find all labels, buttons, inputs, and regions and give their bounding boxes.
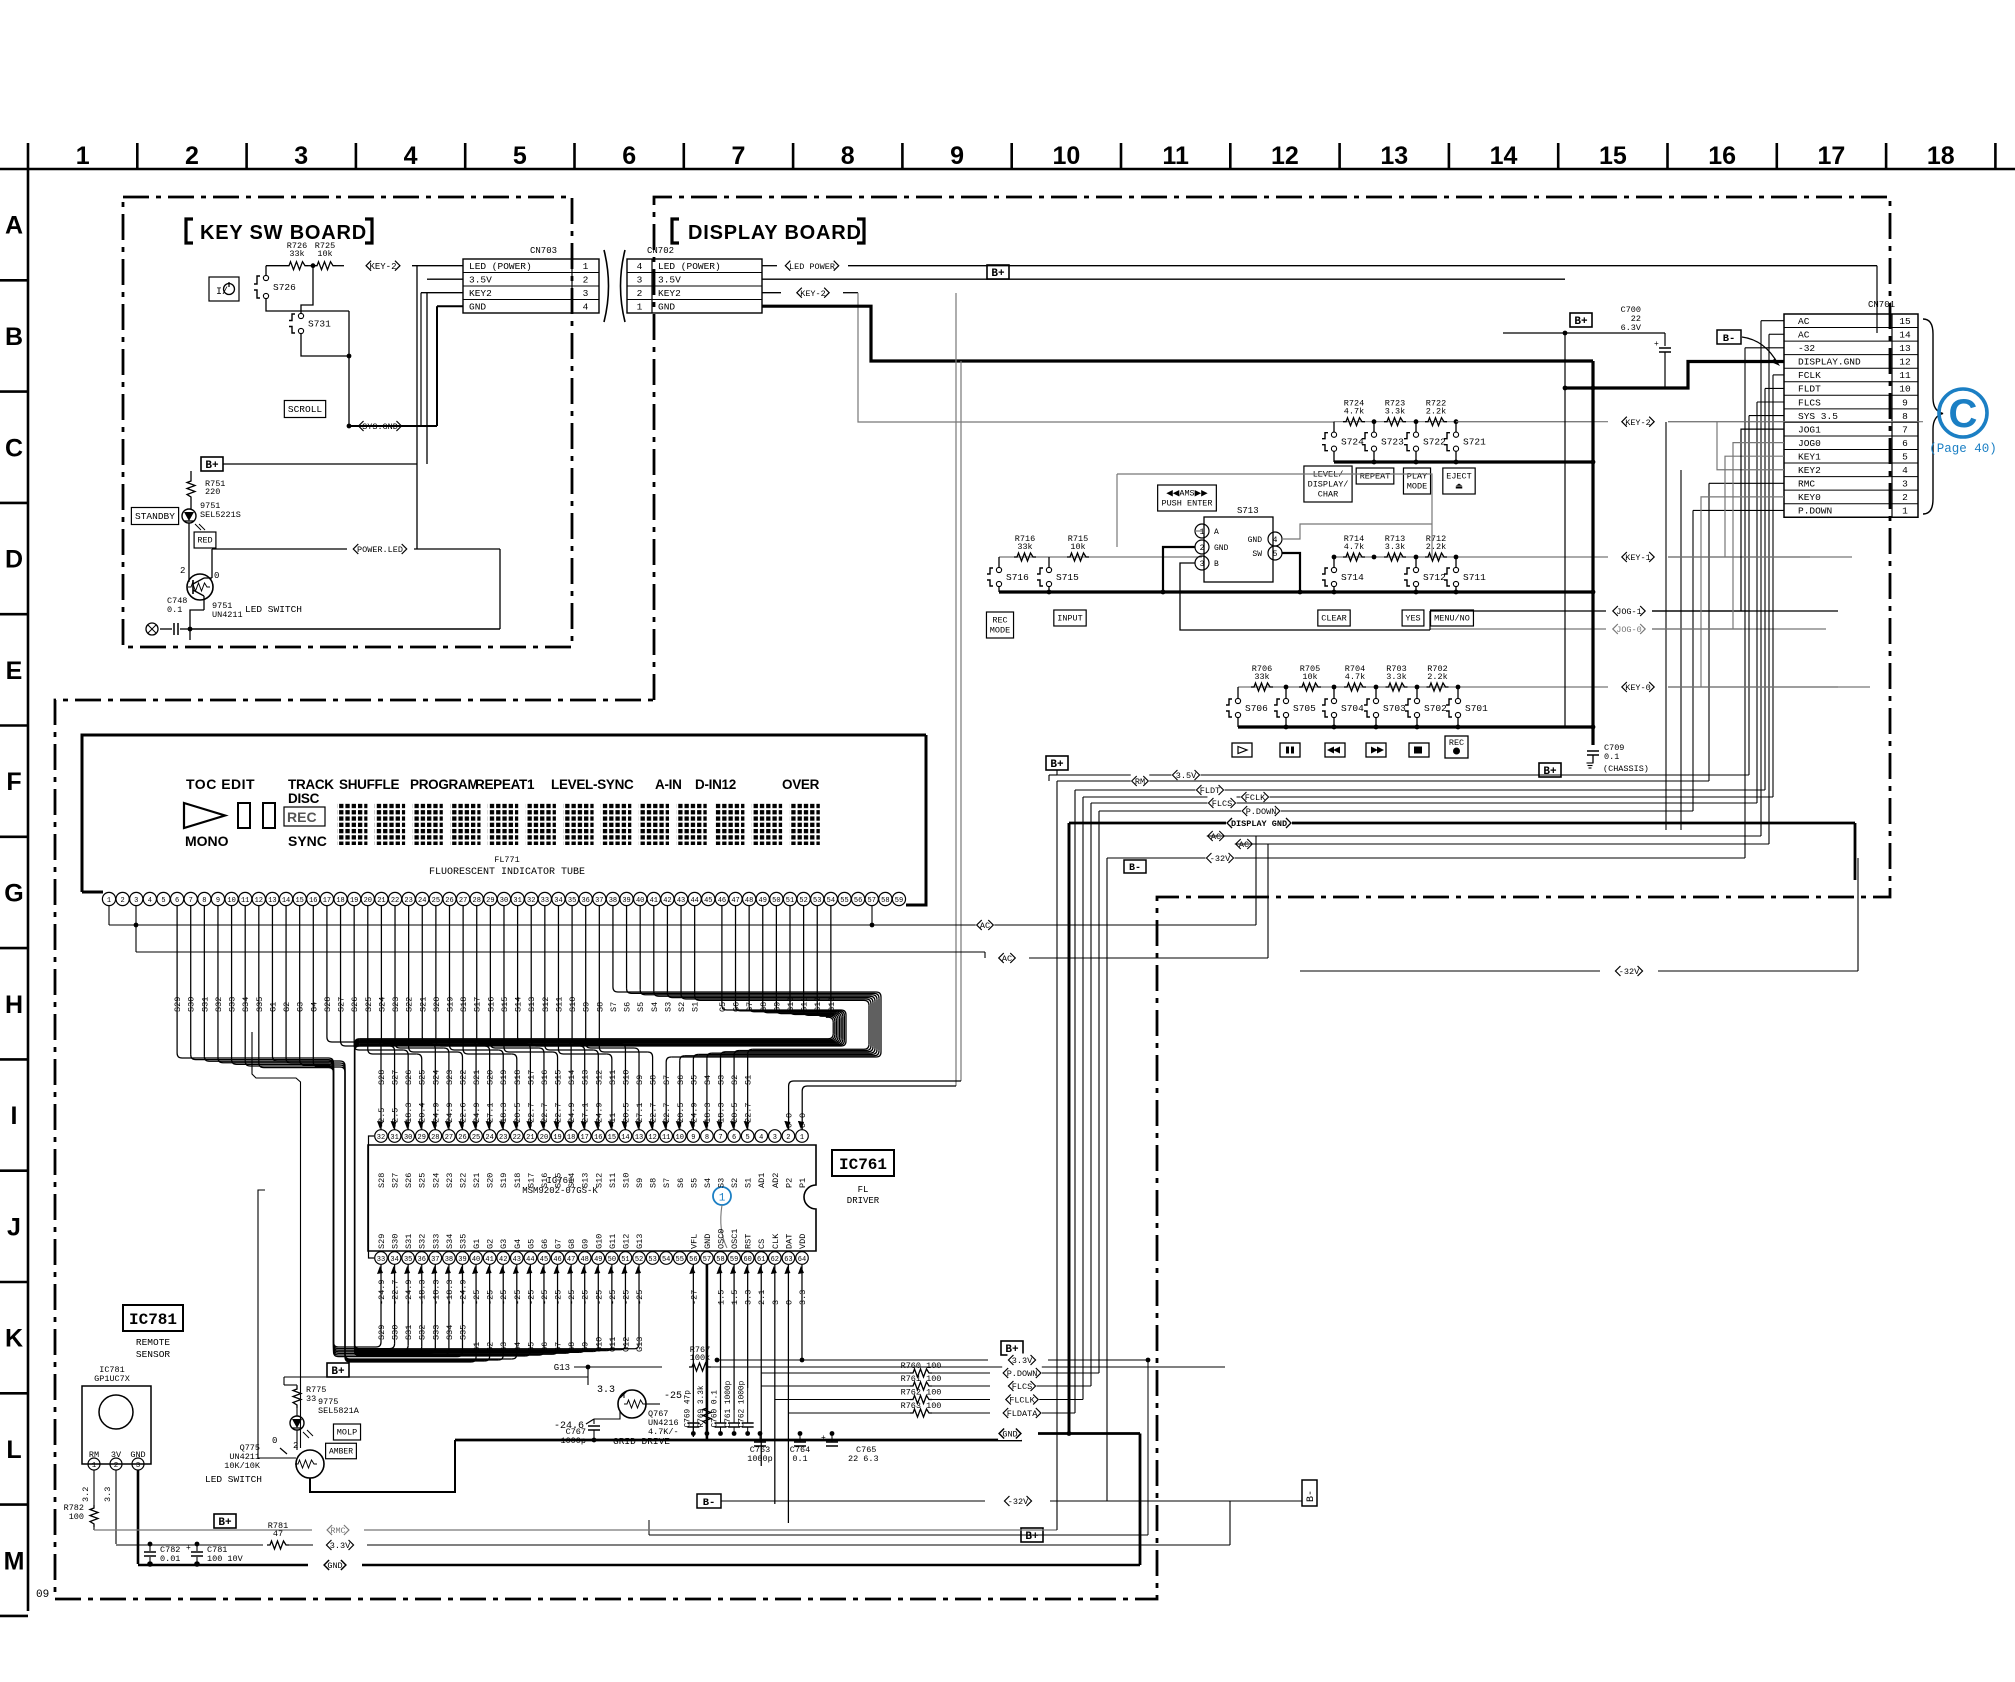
svg-text:EJECT: EJECT	[1446, 472, 1472, 482]
svg-text:-32V: -32V	[1619, 967, 1640, 977]
svg-text:S34: S34	[241, 997, 251, 1012]
svg-text:S23: S23	[445, 1070, 455, 1085]
svg-text:B+: B+	[1574, 316, 1588, 328]
svg-text:G13: G13	[635, 1337, 645, 1352]
svg-text:G13: G13	[554, 1363, 570, 1373]
svg-text:0: 0	[784, 1113, 794, 1118]
svg-text:-25: -25	[499, 1290, 509, 1305]
svg-text:MODE: MODE	[1407, 482, 1427, 492]
svg-text:S24: S24	[377, 997, 387, 1012]
svg-text:B-: B-	[1129, 863, 1141, 874]
svg-text:JOG-0: JOG-0	[1616, 625, 1642, 635]
svg-text:KEY0: KEY0	[1798, 492, 1821, 503]
svg-text:0.1: 0.1	[1604, 752, 1619, 762]
svg-text:38: 38	[445, 1256, 453, 1264]
svg-text:JOG1: JOG1	[1798, 424, 1821, 435]
svg-text:RST: RST	[744, 1234, 754, 1249]
svg-text:-25: -25	[594, 1290, 604, 1305]
svg-text:17: 17	[323, 897, 331, 905]
svg-text:B+: B+	[331, 1366, 345, 1378]
svg-text:G9: G9	[581, 1239, 591, 1249]
svg-text:IC761: IC761	[839, 1156, 887, 1174]
svg-text:50: 50	[608, 1256, 616, 1264]
svg-text:DISPLAY.GND: DISPLAY.GND	[1798, 357, 1861, 368]
svg-text:220: 220	[205, 487, 220, 497]
svg-text:23: 23	[404, 897, 412, 905]
svg-text:3: 3	[637, 274, 643, 285]
svg-text:-27: -27	[689, 1290, 699, 1305]
svg-text:9: 9	[1902, 397, 1908, 408]
svg-text:AMBER: AMBER	[329, 1447, 353, 1456]
svg-text:GND: GND	[469, 301, 486, 312]
svg-text:0: 0	[214, 571, 219, 581]
svg-text:57: 57	[868, 897, 876, 905]
svg-text:G11: G11	[608, 1234, 618, 1249]
svg-text:S712: S712	[1423, 572, 1446, 583]
svg-text:-32V: -32V	[1210, 854, 1231, 864]
svg-text:FL771: FL771	[494, 855, 520, 865]
svg-text:49: 49	[594, 1256, 602, 1264]
svg-text:5: 5	[513, 142, 527, 170]
svg-text:63: 63	[784, 1256, 792, 1264]
svg-text:6: 6	[175, 897, 179, 905]
svg-text:C769 47p: C769 47p	[684, 1390, 692, 1428]
svg-text:33: 33	[377, 1256, 385, 1264]
svg-text:FLUORESCENT INDICATOR TUBE: FLUORESCENT INDICATOR TUBE	[429, 867, 585, 878]
svg-text:POWER.LED: POWER.LED	[357, 545, 403, 555]
svg-text:35: 35	[404, 1256, 412, 1264]
svg-text:S1: S1	[744, 1178, 754, 1188]
svg-text:S8: S8	[595, 1002, 605, 1012]
svg-text:GP1UC7X: GP1UC7X	[94, 1374, 130, 1384]
svg-text:S21: S21	[472, 1173, 482, 1188]
svg-text:CN702: CN702	[647, 246, 674, 256]
svg-text:S14: S14	[567, 1070, 577, 1085]
svg-text:G2: G2	[486, 1239, 496, 1249]
svg-text:G10: G10	[594, 1234, 604, 1249]
svg-text:1: 1	[92, 1462, 97, 1470]
svg-text:10k: 10k	[1302, 672, 1317, 682]
svg-text:S32: S32	[214, 997, 224, 1012]
svg-text:1: 1	[107, 897, 111, 905]
svg-text:B-: B-	[1306, 1490, 1317, 1502]
svg-text:3.3V: 3.3V	[1012, 1356, 1033, 1366]
svg-text:40: 40	[472, 1256, 480, 1264]
svg-text:3.3: 3.3	[744, 1290, 754, 1305]
svg-text:S27: S27	[391, 1070, 401, 1085]
svg-text:S2: S2	[730, 1075, 740, 1085]
svg-text:10k: 10k	[317, 249, 332, 259]
svg-text:LED SWITCH: LED SWITCH	[205, 1474, 262, 1485]
svg-text:48: 48	[745, 897, 753, 905]
svg-text:P.DOWN: P.DOWN	[1798, 506, 1832, 517]
svg-text:4.7k: 4.7k	[1345, 672, 1365, 682]
svg-text:1: 1	[1200, 528, 1205, 537]
svg-text:8: 8	[705, 1134, 709, 1142]
svg-text:S17: S17	[526, 1070, 536, 1085]
svg-text:GND: GND	[658, 301, 675, 312]
svg-text:S16: S16	[540, 1070, 550, 1085]
svg-text:3.5V: 3.5V	[658, 274, 681, 285]
svg-text:SYS.GND: SYS.GND	[362, 422, 398, 432]
svg-text:-25: -25	[472, 1290, 482, 1305]
svg-text:B+: B+	[991, 268, 1005, 280]
svg-text:3.3k: 3.3k	[1385, 407, 1405, 417]
svg-text:UN4211: UN4211	[212, 610, 243, 620]
svg-text:P.DOWN: P.DOWN	[1007, 1369, 1038, 1379]
svg-text:G2: G2	[486, 1342, 496, 1352]
svg-text:2.2k: 2.2k	[1426, 407, 1446, 417]
svg-text:+: +	[821, 1434, 826, 1443]
svg-text:S19: S19	[499, 1173, 509, 1188]
svg-text:B+: B+	[1050, 759, 1064, 771]
svg-text:7: 7	[718, 1134, 722, 1142]
svg-text:2: 2	[786, 1134, 790, 1142]
svg-text:MENU/NO: MENU/NO	[1434, 614, 1470, 624]
svg-text:P.DOWN: P.DOWN	[1246, 807, 1277, 817]
svg-text:28: 28	[473, 897, 481, 905]
svg-text:G5: G5	[526, 1239, 536, 1249]
svg-text:G11: G11	[800, 997, 810, 1012]
svg-text:MODE: MODE	[990, 626, 1010, 636]
svg-text:3: 3	[136, 1462, 141, 1470]
svg-text:S1: S1	[744, 1075, 754, 1085]
svg-text:S35: S35	[458, 1325, 468, 1340]
svg-text:19: 19	[350, 897, 358, 905]
svg-text:41: 41	[485, 1256, 493, 1264]
svg-text:43: 43	[677, 897, 685, 905]
svg-text:55: 55	[840, 897, 848, 905]
svg-text:S5: S5	[689, 1075, 699, 1085]
svg-text:10k: 10k	[1070, 542, 1085, 552]
svg-text:S703: S703	[1383, 703, 1406, 714]
svg-text:KEY2: KEY2	[469, 288, 492, 299]
svg-text:S715: S715	[1056, 572, 1079, 583]
svg-text:FLDATA: FLDATA	[1007, 1409, 1039, 1419]
svg-text:LED POWER: LED POWER	[789, 262, 835, 272]
svg-text:16: 16	[1708, 142, 1736, 170]
svg-text:3.3: 3.3	[103, 1487, 113, 1502]
svg-text:S32: S32	[418, 1234, 428, 1249]
svg-text:S25: S25	[418, 1173, 428, 1188]
svg-text:S2: S2	[730, 1178, 740, 1188]
svg-text:S12: S12	[594, 1173, 604, 1188]
svg-text:2: 2	[121, 897, 125, 905]
svg-text:37: 37	[431, 1256, 439, 1264]
svg-text:S18: S18	[459, 997, 469, 1012]
svg-text:21: 21	[377, 897, 385, 905]
svg-text:3.5V: 3.5V	[469, 274, 492, 285]
svg-text:S12: S12	[541, 997, 551, 1012]
svg-text:S1: S1	[691, 1002, 701, 1012]
svg-text:58: 58	[716, 1256, 724, 1264]
svg-text:S6: S6	[676, 1178, 686, 1188]
svg-text:2: 2	[180, 566, 185, 576]
svg-text:59: 59	[895, 897, 903, 905]
svg-text:2.2k: 2.2k	[1426, 542, 1446, 552]
svg-text:KEY-0: KEY-0	[1625, 683, 1651, 693]
svg-text:G4: G4	[513, 1239, 523, 1249]
svg-text:53: 53	[813, 897, 821, 905]
svg-text:TRACK: TRACK	[288, 777, 334, 792]
svg-text:4.7k: 4.7k	[1344, 542, 1364, 552]
svg-text:S10: S10	[568, 997, 578, 1012]
svg-text:S705: S705	[1293, 703, 1316, 714]
svg-text:AC: AC	[1798, 316, 1810, 327]
svg-text:8: 8	[202, 897, 206, 905]
svg-text:09: 09	[36, 1589, 49, 1601]
svg-text:S3: S3	[717, 1178, 727, 1188]
svg-text:6: 6	[732, 1134, 736, 1142]
svg-text:46: 46	[553, 1256, 561, 1264]
svg-text:12: 12	[648, 1134, 656, 1142]
svg-text:3.3V: 3.3V	[330, 1541, 351, 1551]
svg-text:24: 24	[485, 1134, 493, 1142]
svg-text:LED (POWER): LED (POWER)	[658, 261, 721, 272]
svg-text:11: 11	[662, 1134, 670, 1142]
svg-text:CN703: CN703	[530, 246, 557, 256]
svg-text:52: 52	[799, 897, 807, 905]
svg-text:S13: S13	[581, 1070, 591, 1085]
svg-text:S11: S11	[554, 997, 564, 1012]
svg-text:45: 45	[704, 897, 712, 905]
svg-text:4: 4	[404, 142, 418, 170]
svg-text:33k: 33k	[1254, 672, 1269, 682]
svg-text:57: 57	[703, 1256, 711, 1264]
svg-text:(CHASSIS): (CHASSIS)	[1603, 764, 1649, 774]
svg-text:0: 0	[798, 1113, 808, 1118]
svg-text:4: 4	[1273, 536, 1278, 545]
svg-text:DRIVER: DRIVER	[847, 1196, 880, 1206]
svg-text:11: 11	[1162, 142, 1189, 170]
svg-text:7: 7	[731, 142, 745, 170]
svg-text:-24.9: -24.9	[404, 1279, 414, 1305]
svg-text:-32: -32	[1798, 343, 1815, 354]
svg-text:S15: S15	[554, 1070, 564, 1085]
svg-text:SYNC: SYNC	[288, 833, 327, 849]
svg-text:OSC0: OSC0	[717, 1229, 727, 1249]
svg-text:S5: S5	[689, 1178, 699, 1188]
svg-text:-25: -25	[554, 1290, 564, 1305]
svg-text:S25: S25	[364, 997, 374, 1012]
svg-text:2: 2	[1902, 492, 1908, 503]
svg-text:3.3k: 3.3k	[1385, 542, 1405, 552]
svg-text:FCLK: FCLK	[1245, 793, 1266, 803]
svg-text:43: 43	[513, 1256, 521, 1264]
svg-text:C: C	[5, 434, 23, 462]
svg-text:G12: G12	[813, 997, 823, 1012]
svg-text:1.5: 1.5	[730, 1290, 740, 1305]
svg-text:53: 53	[648, 1256, 656, 1264]
svg-text:S20: S20	[486, 1070, 496, 1085]
svg-text:S19: S19	[499, 1070, 509, 1085]
svg-text:YES: YES	[1405, 614, 1420, 624]
svg-text:44: 44	[526, 1256, 534, 1264]
svg-text:54: 54	[662, 1256, 670, 1264]
svg-text:S13: S13	[527, 997, 537, 1012]
svg-text:14: 14	[1899, 330, 1911, 341]
svg-text:GND: GND	[1248, 536, 1263, 545]
svg-text:17: 17	[580, 1134, 588, 1142]
svg-text:DISC: DISC	[288, 791, 320, 806]
svg-text:12: 12	[1899, 357, 1911, 368]
svg-text:LED SWITCH: LED SWITCH	[245, 604, 302, 615]
svg-text:S25: S25	[418, 1070, 428, 1085]
svg-text:61: 61	[757, 1256, 765, 1264]
svg-text:CHAR: CHAR	[1318, 490, 1338, 500]
svg-text:S17: S17	[473, 997, 483, 1012]
svg-text:RM: RM	[1135, 777, 1145, 787]
svg-text:S9: S9	[635, 1178, 645, 1188]
svg-text:1: 1	[76, 142, 90, 170]
svg-text:REC: REC	[1449, 738, 1464, 748]
svg-text:S15: S15	[554, 1173, 564, 1188]
svg-text:42: 42	[663, 897, 671, 905]
svg-text:AD2: AD2	[771, 1173, 781, 1188]
svg-text:S714: S714	[1341, 572, 1364, 583]
svg-text:VFL: VFL	[689, 1234, 699, 1249]
svg-text:48: 48	[580, 1256, 588, 1264]
svg-text:D: D	[5, 546, 23, 574]
svg-text:OVER: OVER	[782, 777, 820, 792]
svg-text:5: 5	[1273, 550, 1278, 559]
svg-text:4: 4	[637, 261, 643, 272]
svg-text:S16: S16	[540, 1173, 550, 1188]
svg-text:0.1: 0.1	[792, 1454, 807, 1464]
svg-text:REMOTE: REMOTE	[136, 1337, 171, 1348]
svg-text:20: 20	[364, 897, 372, 905]
svg-text:0: 0	[272, 1436, 277, 1446]
svg-text:28: 28	[431, 1134, 439, 1142]
svg-text:S29: S29	[377, 1234, 387, 1249]
svg-text:3.2: 3.2	[81, 1487, 91, 1502]
svg-text:42: 42	[499, 1256, 507, 1264]
svg-text:S24: S24	[431, 1173, 441, 1188]
svg-text:A-IN: A-IN	[655, 777, 682, 792]
svg-text:33: 33	[306, 1394, 316, 1404]
svg-text:-25: -25	[540, 1290, 550, 1305]
svg-text:S27: S27	[391, 1173, 401, 1188]
svg-text:⏏: ⏏	[1455, 482, 1463, 492]
svg-text:S22: S22	[458, 1173, 468, 1188]
svg-text:DISPLAY/: DISPLAY/	[1308, 480, 1349, 490]
svg-text:-22.7: -22.7	[391, 1279, 401, 1305]
svg-text:G9: G9	[772, 1002, 782, 1012]
svg-text:-25: -25	[526, 1290, 536, 1305]
svg-text:S28: S28	[377, 1070, 387, 1085]
svg-text:G12: G12	[621, 1234, 631, 1249]
svg-text:G3: G3	[499, 1342, 509, 1352]
svg-text:2: 2	[293, 1441, 298, 1451]
svg-text:2: 2	[185, 142, 199, 170]
svg-text:S23: S23	[391, 997, 401, 1012]
svg-text:32: 32	[377, 1134, 385, 1142]
svg-text:6.3V: 6.3V	[1621, 323, 1642, 333]
svg-text:-25: -25	[513, 1290, 523, 1305]
svg-text:RMC: RMC	[1798, 479, 1815, 490]
svg-text:S29: S29	[377, 1325, 387, 1340]
svg-text:40: 40	[636, 897, 644, 905]
svg-text:G3: G3	[296, 1002, 306, 1012]
svg-text:G1: G1	[268, 1002, 278, 1012]
svg-text:44: 44	[690, 897, 698, 905]
svg-text:1: 1	[637, 301, 643, 312]
svg-text:11: 11	[241, 897, 249, 905]
svg-text:S35: S35	[255, 997, 265, 1012]
svg-text:15: 15	[608, 1134, 616, 1142]
svg-text:S8: S8	[649, 1178, 659, 1188]
svg-text:S14: S14	[514, 997, 524, 1012]
svg-text:1: 1	[719, 1193, 726, 1205]
svg-text:100k: 100k	[690, 1353, 710, 1363]
svg-text:GND: GND	[327, 1561, 342, 1571]
svg-text:B+: B+	[205, 460, 219, 472]
svg-text:J: J	[7, 1213, 21, 1241]
svg-text:KEY1: KEY1	[1798, 451, 1821, 462]
svg-text:KEY SW BOARD: KEY SW BOARD	[200, 222, 367, 244]
svg-text:S23: S23	[445, 1173, 455, 1188]
svg-text:S33: S33	[228, 997, 238, 1012]
svg-text:24: 24	[418, 897, 426, 905]
svg-text:5: 5	[746, 1134, 750, 1142]
svg-text:S34: S34	[445, 1234, 455, 1249]
svg-text:7: 7	[189, 897, 193, 905]
svg-text:REC: REC	[287, 809, 317, 825]
svg-text:-18.3: -18.3	[418, 1279, 428, 1305]
svg-text:G8: G8	[567, 1239, 577, 1249]
svg-text:◀◀AMS▶▶: ◀◀AMS▶▶	[1166, 489, 1208, 499]
svg-text:17: 17	[1818, 142, 1846, 170]
svg-text:22: 22	[391, 897, 399, 905]
svg-text:KEY2: KEY2	[658, 288, 681, 299]
svg-text:18: 18	[1927, 142, 1955, 170]
svg-text:GND: GND	[1002, 1430, 1017, 1440]
svg-text:38: 38	[609, 897, 617, 905]
svg-text:23: 23	[499, 1134, 507, 1142]
svg-text:1.5: 1.5	[717, 1290, 727, 1305]
svg-text:C: C	[1949, 392, 1978, 436]
svg-text:56: 56	[854, 897, 862, 905]
svg-text:100: 100	[69, 1512, 84, 1522]
svg-text:S26: S26	[404, 1070, 414, 1085]
svg-text:-11: -11	[608, 1113, 618, 1128]
svg-text:G4: G4	[513, 1342, 523, 1352]
svg-text:G: G	[4, 879, 23, 907]
svg-text:S20: S20	[486, 1173, 496, 1188]
svg-text:3: 3	[1200, 560, 1205, 569]
svg-text:12: 12	[1271, 142, 1299, 170]
svg-text:SW: SW	[1252, 550, 1262, 559]
svg-text:0.1: 0.1	[167, 605, 182, 615]
svg-text:KEY-1: KEY-1	[1625, 553, 1651, 563]
svg-text:S22: S22	[458, 1070, 468, 1085]
svg-text:S2: S2	[677, 1002, 687, 1012]
svg-text:47: 47	[567, 1256, 575, 1264]
svg-text:2: 2	[114, 1462, 119, 1470]
svg-text:22: 22	[513, 1134, 521, 1142]
svg-text:TOC EDIT: TOC EDIT	[186, 776, 255, 792]
svg-text:S724: S724	[1341, 437, 1364, 448]
svg-text:S21: S21	[472, 1070, 482, 1085]
svg-text:52: 52	[635, 1256, 643, 1264]
svg-text:S17: S17	[526, 1173, 536, 1188]
svg-text:S721: S721	[1463, 437, 1486, 448]
svg-text:SYS 3.5: SYS 3.5	[1798, 411, 1838, 422]
svg-text:39: 39	[458, 1256, 466, 1264]
svg-text:10K/10K: 10K/10K	[224, 1461, 261, 1471]
svg-text:25: 25	[432, 897, 440, 905]
svg-text:47: 47	[731, 897, 739, 905]
